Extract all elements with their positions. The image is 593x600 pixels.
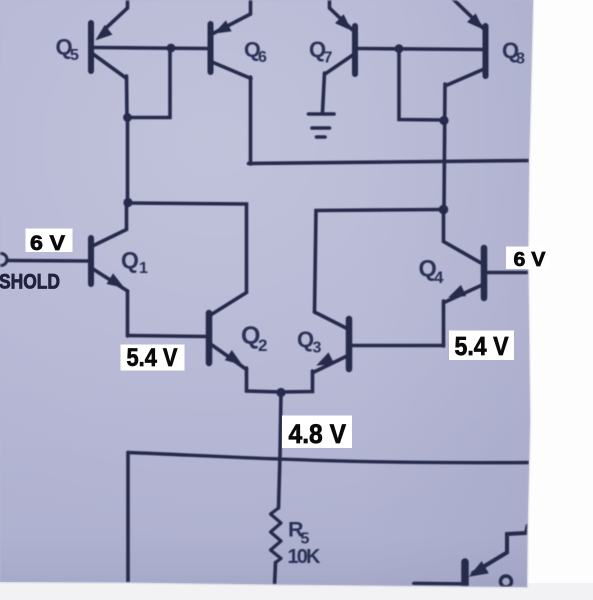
wire R5 down bbox=[275, 563, 276, 587]
Q5 emitter wire (to top rail) bbox=[105, 0, 128, 29]
transistor Q1 bar bbox=[88, 238, 94, 284]
svg-text:10K: 10K bbox=[288, 546, 322, 568]
wire Q1 emitter down to Q2 base bbox=[126, 291, 130, 336]
transistor Q2 bar bbox=[206, 313, 213, 363]
Q8 collector wire bbox=[446, 69, 484, 86]
wire Q2 emitter down to common node bbox=[247, 368, 282, 392]
Q4 emitter wire bbox=[444, 286, 481, 303]
svg-text:3: 3 bbox=[313, 340, 322, 357]
Q7 emitter wire (to top rail) bbox=[330, 0, 353, 30]
junction dot base rail bbox=[167, 44, 176, 53]
Q9 emitter wire bbox=[473, 526, 528, 573]
wire base rail down bbox=[399, 49, 444, 120]
annotation 5.4 V (right) bbox=[449, 331, 514, 362]
transistor Q8 bar bbox=[483, 26, 489, 76]
Q4 collector wire bbox=[444, 210, 482, 264]
transistor Q4 bar bbox=[481, 248, 488, 298]
Q8 emitter arrow bbox=[468, 14, 483, 28]
transistor Q5 bar bbox=[88, 23, 94, 71]
wire Q4 emitter down to Q3 base bbox=[442, 301, 446, 346]
Q6 collector wire bbox=[212, 62, 251, 79]
svg-text:4: 4 bbox=[434, 268, 444, 287]
input terminal circle bbox=[0, 254, 7, 266]
svg-text:Q: Q bbox=[121, 247, 139, 273]
svg-text:5: 5 bbox=[70, 47, 79, 64]
transistor Q9 bar (partial, bottom right) bbox=[461, 562, 469, 587]
svg-text:6 V: 6 V bbox=[30, 232, 65, 255]
wire Q3 base bbox=[351, 344, 444, 348]
Q4 emitter arrow bbox=[450, 286, 466, 297]
svg-text:7: 7 bbox=[324, 50, 333, 67]
wire Q6 collector down bbox=[249, 77, 253, 164]
wire node down to Q1 collector node bbox=[126, 118, 130, 204]
reference designators (printed ink) bbox=[56, 35, 526, 569]
faint scanner shade along bottom band bbox=[0, 583, 593, 600]
annotation 4.8 V bbox=[282, 416, 352, 450]
transistor Q6 bar bbox=[208, 24, 214, 72]
wire node B to Q3 collector bbox=[315, 210, 444, 313]
Q2 collector wire up and left to node A bbox=[128, 203, 247, 315]
Q3 collector wire bbox=[315, 312, 349, 329]
wire Q5 collector down bbox=[125, 76, 129, 118]
annotation 6 V (left) bbox=[26, 229, 73, 256]
svg-text:5: 5 bbox=[301, 531, 310, 548]
transistor Q7 bar bbox=[352, 26, 358, 74]
wire collector node to base rail (diode connection) bbox=[128, 50, 171, 118]
svg-text:6 V: 6 V bbox=[514, 249, 547, 271]
Q3 emitter arrow bbox=[318, 353, 334, 365]
resistor R5 bbox=[271, 508, 282, 563]
Q2 base wire bbox=[128, 336, 207, 337]
svg-text:4.8 V: 4.8 V bbox=[289, 419, 347, 449]
wire common node down to R5 bbox=[279, 393, 282, 509]
wire Q3 emitter down to common node bbox=[281, 371, 313, 392]
Q1 collector wire to node A bbox=[93, 203, 127, 246]
annotation 6 V (right) bbox=[506, 247, 550, 272]
svg-text:8: 8 bbox=[516, 51, 525, 68]
junction dot Q5 collector node bbox=[123, 113, 132, 122]
ground bbox=[309, 112, 335, 116]
Q4 base wire to right edge bbox=[487, 271, 531, 275]
junction dot node A bbox=[123, 198, 132, 207]
Q1 base wire bbox=[7, 259, 88, 263]
Q1 emitter arrow bbox=[107, 274, 123, 287]
wire Q6 collector horizontal run to right edge bbox=[249, 161, 533, 164]
svg-text:2: 2 bbox=[258, 336, 267, 355]
Q2 emitter wire bbox=[211, 344, 247, 370]
junction dot common emitter node bbox=[276, 388, 285, 397]
terminal circle bottom right bbox=[501, 576, 512, 587]
Q7 emitter arrow bbox=[336, 15, 351, 29]
junction dot Q7 base rail bbox=[395, 44, 404, 53]
junction dot node B (Q4/Q8 collectors) bbox=[439, 205, 449, 215]
transistor Q3 bar bbox=[346, 319, 353, 369]
svg-text:5.4 V: 5.4 V bbox=[455, 331, 510, 361]
Q5 emitter arrow bbox=[97, 26, 112, 40]
wire Q5 base to Q6 base bbox=[94, 48, 207, 49]
Q5 collector wire bbox=[93, 54, 126, 78]
annotation 5.4 V (left) bbox=[121, 344, 185, 372]
wire long bottom horizontal bbox=[128, 453, 530, 463]
Q1 emitter wire bbox=[93, 269, 128, 291]
Q6 emitter wire (to top rail) bbox=[213, 0, 251, 34]
Q9 base wire bbox=[414, 582, 461, 586]
Q2 emitter arrow bbox=[226, 351, 241, 364]
svg-text:SHOLD: SHOLD bbox=[0, 271, 60, 294]
Q9 emitter arrow bbox=[470, 562, 488, 576]
Q8 emitter wire (to top rail) bbox=[451, 0, 484, 29]
Q6 emitter arrow bbox=[215, 21, 231, 33]
wire Q8 collector down to right node bbox=[444, 84, 445, 210]
wire left branch down bbox=[126, 453, 130, 584]
Q3 emitter wire bbox=[313, 356, 347, 373]
junction dot Q8 diode connection bbox=[439, 116, 448, 125]
wire Q7 collector to ground bbox=[323, 73, 325, 112]
svg-text:6: 6 bbox=[258, 49, 267, 66]
svg-text:1: 1 bbox=[139, 260, 148, 277]
svg-text:5.4 V: 5.4 V bbox=[127, 344, 178, 372]
Q7 collector wire bbox=[325, 54, 355, 75]
wire Q7 base to Q8 base bbox=[358, 49, 482, 50]
